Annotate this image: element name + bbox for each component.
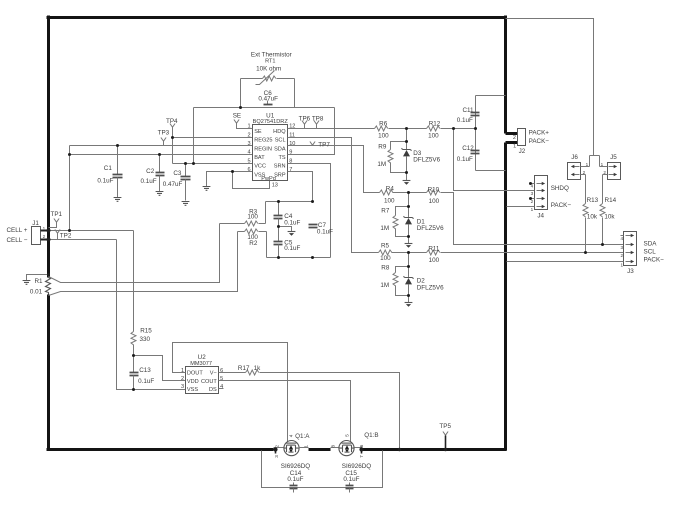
svg-text:COUT: COUT (201, 379, 217, 385)
J4 arrow pin 3 (537, 189, 546, 192)
svg-text:TP6: TP6 (299, 116, 311, 123)
junction bus riser at VCC rail (192, 162, 195, 165)
wire: J4 pin 1 stub from PACK- border (507, 206, 535, 208)
svg-text:J4: J4 (537, 213, 544, 220)
svg-text:10k: 10k (604, 214, 615, 221)
wire: J5 pin 1 stub (600, 166, 608, 168)
wire: C4/C5 midpoint ground tap (279, 227, 292, 232)
svg-text:SI6926DQ: SI6926DQ (342, 463, 372, 470)
junction R13 at SCL row (584, 251, 587, 254)
svg-text:TP3: TP3 (158, 130, 170, 137)
svg-text:SRN: SRN (274, 164, 286, 170)
svg-text:5: 5 (345, 434, 350, 437)
svg-text:4: 4 (621, 236, 624, 241)
svg-text:R13: R13 (587, 197, 599, 204)
junction R9 top at D3 (405, 140, 408, 143)
svg-text:0.1uF: 0.1uF (287, 476, 303, 483)
svg-text:3: 3 (247, 141, 250, 147)
junction R15/C13/VDD node (132, 354, 135, 357)
svg-text:R17: R17 (238, 365, 250, 372)
capacitor C6 0.47uF (264, 101, 273, 105)
node J4 pin 4 stub (529, 182, 532, 185)
svg-text:100: 100 (384, 198, 395, 205)
wire: D3 cathode to ground node (406, 157, 408, 181)
svg-text:1: 1 (621, 262, 624, 267)
wire: R15 node to U2 VDD pin 2 (134, 356, 186, 381)
wire: R1 lower kelvin sense to R2 (49, 232, 238, 296)
svg-text:SCL: SCL (275, 138, 286, 144)
svg-text:MM3077: MM3077 (190, 361, 212, 367)
junction TP5 at PACK- rail (444, 448, 447, 451)
svg-text:PACK−: PACK− (644, 257, 665, 264)
wire: D2 to ground node (408, 285, 410, 303)
resistor R13 10k pullup (583, 175, 588, 253)
test point TP5 (443, 432, 448, 436)
wire: D1 to ground node (408, 225, 410, 244)
wire: PACK+/PACK- right border (thick bus) (504, 16, 507, 451)
svg-text:C3: C3 (173, 170, 182, 177)
ground at D3 (403, 181, 411, 185)
junction R14 at SDA row (601, 243, 604, 246)
wire: HDQ row between R6 and R12 (389, 128, 427, 130)
svg-text:100: 100 (378, 132, 389, 139)
wire: J4 pin 4 stub (531, 183, 535, 185)
resistor R1 0.01 sense shunt inline on left border (46, 278, 51, 295)
resistor R7 1M parallel D1 (393, 207, 409, 237)
junction V- sense at PACK- rail (398, 448, 401, 451)
wire: J1 pin 2 stub to border (41, 239, 49, 241)
wire: TP3 stem to REGIN rail (163, 142, 165, 146)
junction C5 at SRN row (277, 256, 280, 259)
svg-text:SDA: SDA (644, 241, 658, 248)
wire: VSS to U1 pad pin 13 loop (233, 172, 270, 189)
resistor R4 100 on SDA row (380, 190, 393, 195)
svg-text:10k: 10k (587, 214, 598, 221)
test point TP3 (161, 138, 166, 142)
ground at U1 VSS (203, 187, 211, 191)
svg-text:1: 1 (586, 162, 589, 167)
ground at C1 (114, 198, 122, 202)
junction R7 bottom at D1 (407, 235, 410, 238)
svg-text:CELL −: CELL − (7, 237, 28, 244)
resistor R5 100 on SCL row (379, 250, 392, 255)
wire: SDA row U1 pin 10 down to R4 row (288, 146, 380, 193)
wire: U2 COUT to Q1:B gate (219, 381, 351, 442)
svg-text:0.47uF: 0.47uF (163, 181, 183, 188)
test point TP2 (55, 230, 60, 234)
connector J3 (624, 232, 637, 266)
wire: CELL- row J1.2 to C13/VSS corner (49, 239, 117, 241)
svg-text:0.1uF: 0.1uF (317, 228, 333, 235)
wire: SDA row between R4 and R10 (393, 192, 427, 194)
junction C7/SRP at top row (311, 200, 314, 203)
svg-text:SI6926DQ: SI6926DQ (281, 463, 311, 470)
svg-text:R8: R8 (381, 264, 390, 271)
svg-text:1M: 1M (380, 282, 389, 289)
wire: J3 pin 4 stub (621, 235, 624, 237)
capacitor C13 0.1uF (130, 356, 139, 390)
svg-text:C2: C2 (146, 168, 155, 175)
junction dot (47, 229, 51, 233)
svg-text:0.1uF: 0.1uF (284, 220, 300, 227)
J4 arrow pin 1 (537, 205, 546, 208)
svg-text:TP1: TP1 (51, 211, 63, 218)
transistor Q1:B SI6926DQ (331, 441, 363, 456)
capacitor C3 0.47uF on VCC rail (181, 164, 191, 201)
wire: HDQ row U1 pin 12 to R6 (288, 128, 375, 130)
svg-text:R11: R11 (428, 245, 440, 252)
wire: U2 DOUT to Q1:A gate (173, 343, 288, 442)
svg-text:TP5: TP5 (439, 423, 451, 430)
svg-text:2: 2 (513, 135, 516, 141)
connector J2 pack (518, 129, 526, 146)
test point TP6 (302, 121, 307, 125)
junction C13 at VSS row (132, 388, 135, 391)
resistor R14 10k pullup (600, 175, 605, 245)
svg-text:0.1uF: 0.1uF (141, 178, 157, 185)
test point SE (234, 120, 239, 124)
svg-text:0.1uF: 0.1uF (457, 156, 473, 163)
wire: J1 pin 1 stub to border (41, 230, 49, 232)
wire: J5 pin 2 stub to R14 (603, 174, 608, 176)
node Q1:A source pins 2/3 (273, 447, 277, 451)
diode D3 DFLZ5V6 zener (402, 148, 412, 156)
svg-text:100: 100 (429, 257, 440, 264)
node J4 pin 2 stub (529, 197, 532, 200)
wire: RT1 loop left leg (240, 79, 242, 108)
svg-text:1: 1 (531, 207, 534, 212)
resistor R2 100 (238, 229, 267, 258)
wire: REG25 rail to U1 pin 2 (173, 137, 253, 139)
wire: TS row U1 pin 9 up to bus (288, 108, 335, 155)
svg-text:TP2: TP2 (60, 232, 72, 239)
svg-text:1: 1 (601, 162, 604, 167)
wire: CELL- drop to U2 VSS row (117, 240, 186, 390)
svg-text:J5: J5 (610, 154, 617, 161)
svg-text:VDD: VDD (187, 379, 199, 385)
svg-text:1: 1 (304, 445, 309, 448)
svg-text:VCC: VCC (254, 164, 266, 170)
wire: Q1:A source pin 3 stub (275, 450, 277, 454)
svg-text:R5: R5 (381, 242, 390, 249)
svg-text:PACK−: PACK− (529, 138, 550, 145)
wire: BAT rail to U1 pin 4 (70, 154, 253, 156)
connector J5 jumper (608, 163, 621, 180)
test point TP7 on SDA row (310, 142, 315, 146)
capacitor C5 0.1uF (274, 227, 283, 258)
wire: snubber cap loop below FETs (262, 451, 383, 488)
svg-text:SCL: SCL (644, 249, 657, 256)
svg-text:C11: C11 (462, 107, 474, 114)
svg-text:1: 1 (513, 144, 516, 150)
ground at D2 (405, 303, 413, 307)
svg-text:CELL +: CELL + (7, 227, 28, 234)
svg-text:6: 6 (247, 167, 250, 173)
wire: U2 DS stub (219, 388, 224, 390)
wire: CELL+ riser to REGIN/BAT rails (69, 146, 71, 231)
svg-text:R2: R2 (249, 240, 258, 247)
junction RT1 left leg at bus (239, 106, 242, 109)
svg-text:2: 2 (531, 199, 534, 204)
junction PwPd loop at VSS rail (231, 170, 234, 173)
wire: thick stub border to J2 pin 2 PACK+ (506, 132, 518, 135)
svg-text:R14: R14 (605, 197, 617, 204)
svg-text:R10: R10 (428, 187, 440, 194)
svg-text:PACK+: PACK+ (529, 129, 550, 136)
wire: D2 riser from SCL row (408, 253, 410, 278)
wire: SHDQ drop to J4 pin 3 (454, 129, 535, 191)
J5 arrow pin 1 (609, 165, 618, 168)
resistor R9 1M parallel D3 (388, 142, 407, 173)
junction TP4 riser at REG25 rail (171, 136, 174, 139)
svg-text:DS: DS (209, 387, 217, 393)
wire: SHDQ row R12 to C11/C12 midpoint (441, 128, 476, 130)
resistor R10 100 (427, 190, 440, 195)
transistor Q1:A SI6926DQ (274, 441, 309, 456)
wire: TP2 stem to CELL- row (57, 234, 59, 240)
svg-text:C12: C12 (462, 145, 474, 152)
wire: R1 upper kelvin sense to R3 (49, 224, 220, 283)
svg-text:2: 2 (583, 170, 586, 175)
resistor R3 100 (220, 202, 266, 227)
junction R7 top at D1 (407, 205, 410, 208)
junction SHDQ drop at HDQ row (452, 127, 455, 130)
wire: sense filter top row (266, 201, 313, 203)
J4 arrow pin 2 (537, 197, 546, 200)
svg-text:C1: C1 (104, 165, 113, 172)
junction C4 at SRP row (277, 200, 280, 203)
wire: R17 to PACK- bottom rail (260, 373, 400, 450)
svg-text:100: 100 (380, 255, 391, 262)
wire: R1 ground tap (27, 275, 49, 281)
wire: TP5 stem to bottom rail (445, 436, 447, 450)
svg-text:3: 3 (621, 245, 624, 250)
svg-text:SE: SE (254, 129, 262, 135)
svg-text:R1: R1 (34, 278, 43, 285)
svg-text:TS: TS (278, 155, 285, 161)
J6 arrow pin 2 (571, 173, 580, 176)
J4 arrow pin 4 (537, 182, 546, 185)
ground at R1 (23, 281, 31, 285)
ground at D1 (405, 244, 413, 248)
node Q1:B drain pins 6/7 (359, 447, 363, 451)
svg-text:VSS: VSS (187, 387, 198, 393)
svg-text:DFLZ5V6: DFLZ5V6 (417, 225, 444, 232)
wire: PACK+ feed from top border to jumpers J5/J6 (506, 19, 600, 167)
wire: REGIN rail to U1 pin 3 (70, 145, 253, 147)
svg-text:R6: R6 (379, 121, 388, 128)
junction D3 at HDQ row (405, 127, 408, 130)
svg-text:2: 2 (181, 376, 184, 382)
svg-text:TP8: TP8 (312, 116, 324, 123)
svg-text:DFLZ5V6: DFLZ5V6 (417, 285, 444, 292)
junction CELL+ riser at BAT rail (68, 153, 71, 156)
junction D2 at SCL row (407, 251, 410, 254)
svg-text:RT1: RT1 (265, 59, 275, 65)
svg-text:6: 6 (359, 444, 364, 447)
resistor R11 100 (427, 250, 440, 255)
resistor R12 100 (427, 126, 440, 131)
svg-text:REGIN: REGIN (254, 146, 272, 152)
svg-text:REG25: REG25 (254, 138, 272, 144)
test point TP8 (314, 121, 319, 125)
junction J1 pin2 CELL- on border (47, 238, 51, 242)
junction C7 at SRN row (311, 256, 314, 259)
svg-text:0.1uF: 0.1uF (457, 117, 473, 124)
wire: TP4 riser joining REG25 and VCC rails (172, 128, 174, 164)
svg-text:SE: SE (233, 112, 241, 119)
svg-text:7: 7 (289, 167, 292, 173)
capacitor C2 0.1uF on BAT rail (156, 155, 165, 192)
wire: D1 riser from SDA row (408, 193, 410, 218)
svg-text:0.01: 0.01 (30, 288, 43, 295)
svg-text:0.1uF: 0.1uF (284, 245, 300, 252)
test point TP4 (170, 124, 175, 128)
wire: sense filter bottom row (267, 257, 331, 259)
wire: J3 pin 1 from PACK- border (507, 261, 624, 263)
J3 arrow pin 2 (626, 251, 635, 254)
svg-text:PwPd: PwPd (261, 176, 276, 182)
wire: VSS rail U1 pin 6 to ground (207, 172, 253, 187)
svg-text:TP4: TP4 (166, 118, 178, 125)
svg-text:1: 1 (43, 226, 46, 231)
J3 arrow pin 3 (626, 243, 635, 246)
resistor R15 330 (131, 332, 136, 356)
wire: CELL+/CELL- left border (thick bus) (47, 16, 50, 450)
ground at C3 (182, 202, 190, 206)
ground at C2 (156, 192, 164, 196)
junction R1 ground tap on border (47, 273, 50, 276)
junction C4/C5 midpoint (277, 225, 280, 228)
svg-text:J1: J1 (32, 220, 39, 227)
svg-text:BQ27541DRZ: BQ27541DRZ (253, 119, 289, 125)
svg-text:10: 10 (289, 141, 295, 147)
svg-text:Q1:A: Q1:A (295, 433, 310, 440)
connector J6 jumper (568, 163, 581, 180)
wire: Q1:B pin 7 stub (361, 450, 363, 454)
svg-text:4: 4 (288, 434, 293, 437)
wire: SRP row U1 pin 7 down to filter top row (288, 172, 313, 202)
svg-text:100: 100 (429, 198, 440, 205)
svg-text:R4: R4 (386, 186, 395, 193)
thermistor RT1 10K (256, 71, 276, 85)
wire: CELL+ top border (thick bus) (47, 16, 506, 19)
resistor R8 1M parallel D2 (393, 267, 409, 296)
junction dot (68, 229, 71, 232)
wire: J6 pin 2 stub to R13 (581, 174, 586, 176)
wire: RT1 loop right leg (294, 79, 296, 108)
svg-text:3: 3 (181, 384, 184, 390)
svg-text:330: 330 (139, 336, 150, 343)
J5 arrow pin 2 (609, 173, 618, 176)
svg-text:R12: R12 (429, 121, 441, 128)
svg-text:7: 7 (359, 455, 364, 458)
J6 arrow pin 1 (571, 165, 580, 168)
svg-text:8: 8 (330, 445, 335, 448)
wire: TP6 stem (304, 125, 306, 129)
svg-text:2: 2 (603, 170, 606, 175)
wire: SCL row U1 pin 11 down to R5 row (288, 138, 379, 253)
node: thermistor bus wire (194, 107, 335, 109)
capacitor C15 0.1uF (346, 483, 354, 493)
svg-text:V−: V− (210, 371, 217, 377)
svg-text:0.47uF: 0.47uF (258, 96, 278, 103)
svg-text:R7: R7 (381, 208, 390, 215)
J3 arrow pin 1 (626, 260, 635, 263)
capacitor C14 0.1uF (290, 483, 298, 493)
wire: J4 pin 2 stub (531, 198, 535, 200)
junction C1 at REGIN rail (116, 144, 119, 147)
svg-text:4: 4 (247, 150, 250, 156)
wire: CELL+ row J1.1 to R15 corner (49, 230, 134, 232)
svg-text:J2: J2 (519, 148, 526, 155)
wire: thick stub border to J2 pin 1 PACK- (506, 141, 518, 144)
capacitor C7 0.1uF (309, 225, 318, 228)
transistor driver U2 MM3077 body (186, 367, 219, 394)
junction C3 at VCC rail (184, 162, 187, 165)
svg-text:5: 5 (247, 158, 250, 164)
wire: SDA to J3 pin 3 (441, 193, 624, 245)
test point TP1 (54, 219, 59, 223)
resistor R17 1k (246, 370, 259, 375)
svg-text:13: 13 (272, 182, 278, 188)
svg-text:3: 3 (274, 455, 279, 458)
junction D1 at SDA row (407, 191, 410, 194)
svg-text:U2: U2 (198, 354, 207, 361)
J3 arrow pin 4 (626, 234, 635, 237)
wire: CELL+ drop to R15 (133, 231, 135, 332)
svg-text:C13: C13 (139, 367, 151, 374)
svg-text:10K ohm: 10K ohm (256, 66, 281, 73)
svg-text:3: 3 (531, 191, 534, 196)
resistor R6 100 on HDQ row (375, 126, 388, 131)
connector J1 battery cell (32, 227, 41, 245)
capacitor C11 0.1uF (471, 113, 480, 116)
wire: RT1 top rail (241, 78, 295, 80)
wire: bus riser to VCC rail (193, 108, 195, 164)
wire: U2 V- through R17 (219, 372, 246, 374)
svg-text:J6: J6 (571, 154, 578, 161)
svg-text:BAT: BAT (254, 155, 265, 161)
svg-text:0.1uF: 0.1uF (138, 378, 154, 385)
svg-text:J3: J3 (627, 268, 634, 275)
wire: SE stub U1 pin 1 (237, 124, 253, 129)
wire: D3 riser from HDQ row (406, 129, 408, 150)
junction R9 bottom at D3 (405, 171, 408, 174)
svg-text:SDA: SDA (274, 146, 286, 152)
junction R8 top at D2 (407, 265, 410, 268)
wire: SCL to J3 pin 2 (441, 252, 624, 254)
capacitor C4 0.1uF (274, 202, 283, 227)
ground at C4/C5 midpoint (288, 232, 296, 236)
svg-text:100: 100 (247, 214, 258, 221)
svg-text:1M: 1M (377, 161, 386, 168)
diode D1 DFLZ5V6 zener (404, 216, 414, 224)
svg-text:SHDQ: SHDQ (551, 185, 569, 192)
capacitor C1 0.1uF on REGIN rail (113, 146, 123, 198)
wire: SCL row between R5 and R11 (392, 252, 427, 254)
svg-text:R9: R9 (378, 144, 387, 151)
junction C11/C12 midpoint at SHDQ row (474, 127, 477, 130)
wire: SRN row U1 pin 8 down to filter bottom row (288, 164, 331, 258)
svg-text:0.1uF: 0.1uF (343, 476, 359, 483)
svg-text:PACK−: PACK− (551, 202, 572, 209)
svg-text:2: 2 (43, 234, 46, 239)
svg-text:TP7: TP7 (318, 142, 330, 149)
svg-text:0.1uF: 0.1uF (97, 177, 113, 184)
svg-text:1M: 1M (380, 225, 389, 232)
svg-text:DFLZ5V6: DFLZ5V6 (413, 156, 440, 163)
